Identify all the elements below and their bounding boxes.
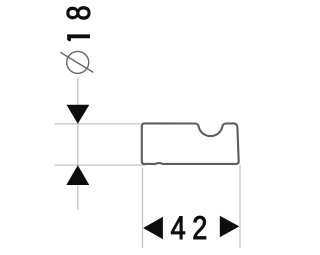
arrow up (points to bottom extension line) — [66, 165, 89, 185]
diameter symbol Ø (slash) — [60, 52, 93, 72]
arrow right (points to right extension line) — [220, 216, 240, 238]
dimension line Ø18 (vertical at x=78) — [77, 78, 79, 211]
arrow down (points to top extension line) — [67, 105, 90, 124]
label 18 digit 8 (rotated glyph path) — [67, 7, 90, 20]
extension line right (x=240) — [239, 165, 241, 248]
hook profile outline — [142, 123, 239, 163]
extension line bottom (y=165) — [55, 164, 146, 166]
label 42 digit 4 (glyph path) — [171, 216, 185, 239]
label 42 digit 2 (glyph path) — [194, 216, 206, 239]
diameter symbol Ø (circle) — [67, 51, 89, 73]
extension line top (y=124) — [55, 123, 141, 125]
arrow left (points to left extension line) — [143, 217, 163, 239]
extension line left (x=142.5) — [142, 168, 144, 249]
label 18 digit 1 (rotated, drawn as path) — [68, 35, 90, 41]
